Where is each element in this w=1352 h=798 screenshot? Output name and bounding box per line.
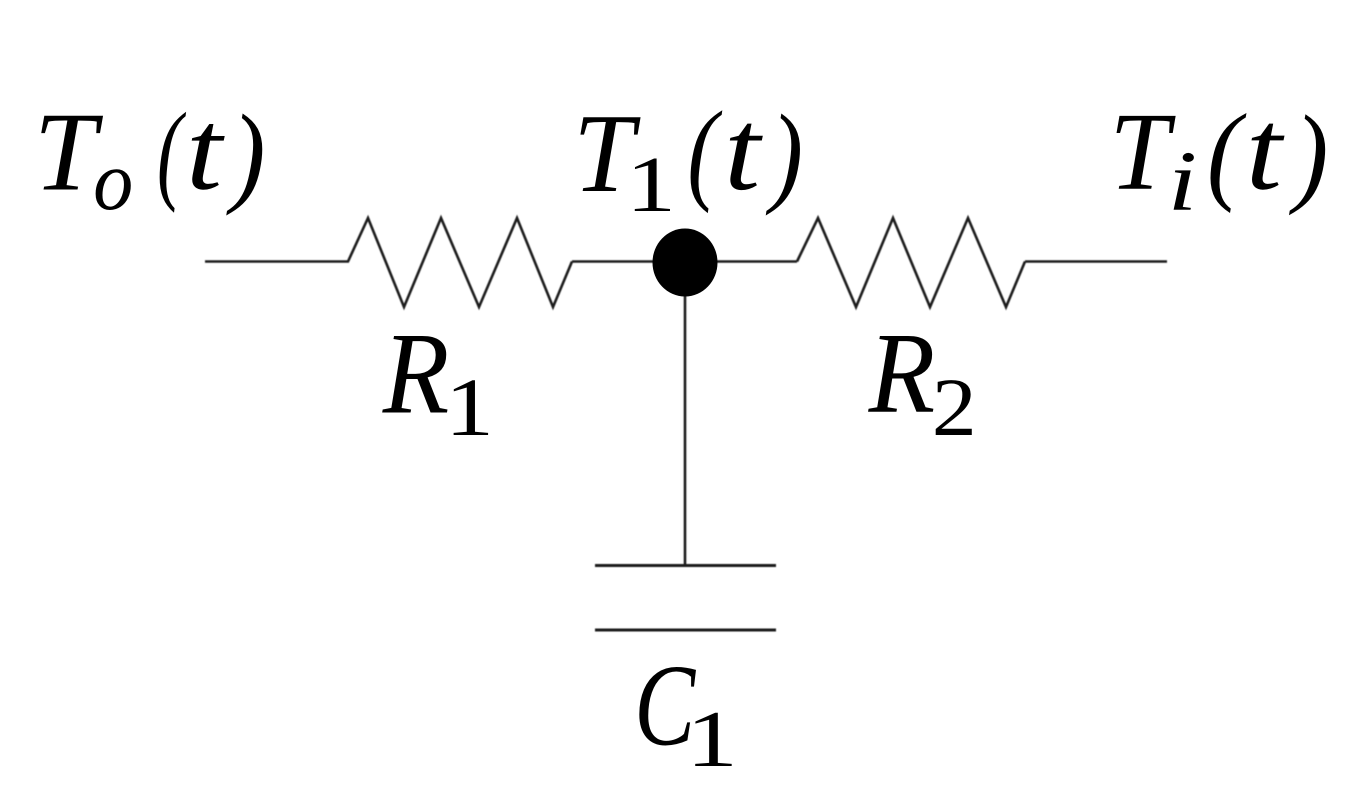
- wire: left lead from To terminal to resistor R1: [205, 260, 349, 263]
- svg-text:(: (: [687, 88, 722, 214]
- label T1(t) at node: [573, 85, 803, 228]
- svg-text:t: t: [1246, 85, 1285, 214]
- wire: resistor R1 to node T1: [572, 260, 685, 263]
- wire: node T1 to resistor R2: [685, 260, 797, 263]
- value label R2: [868, 310, 977, 453]
- label Ti(t): [1110, 85, 1329, 228]
- svg-text:o: o: [93, 134, 133, 228]
- svg-text:(: (: [157, 90, 186, 214]
- label To(t): [34, 87, 265, 228]
- svg-text:T: T: [1110, 89, 1177, 213]
- svg-text:t: t: [186, 87, 225, 214]
- svg-text:1: 1: [626, 141, 676, 229]
- node T1 junction dot: [653, 229, 718, 297]
- svg-text:R: R: [868, 310, 936, 437]
- svg-text:i: i: [1168, 133, 1197, 229]
- svg-text:): ): [225, 92, 265, 216]
- svg-text:R: R: [382, 310, 450, 438]
- resistor R1: [348, 218, 572, 307]
- svg-text:t: t: [724, 85, 763, 214]
- svg-text:(: (: [1207, 92, 1247, 214]
- value label R1: [382, 310, 494, 453]
- svg-text:): ): [766, 91, 803, 216]
- value label C1: [634, 640, 738, 784]
- capacitor C1 bottom plate: [595, 629, 776, 632]
- wire: node T1 down to capacitor C1: [684, 263, 687, 566]
- svg-text:2: 2: [932, 361, 977, 453]
- wire: resistor R2 to Ti terminal lead: [1025, 260, 1167, 263]
- resistor R2: [797, 218, 1025, 307]
- svg-text:1: 1: [686, 696, 738, 784]
- capacitor C1 top plate: [595, 564, 776, 567]
- svg-text:1: 1: [445, 361, 494, 453]
- svg-text:): ): [1288, 93, 1328, 216]
